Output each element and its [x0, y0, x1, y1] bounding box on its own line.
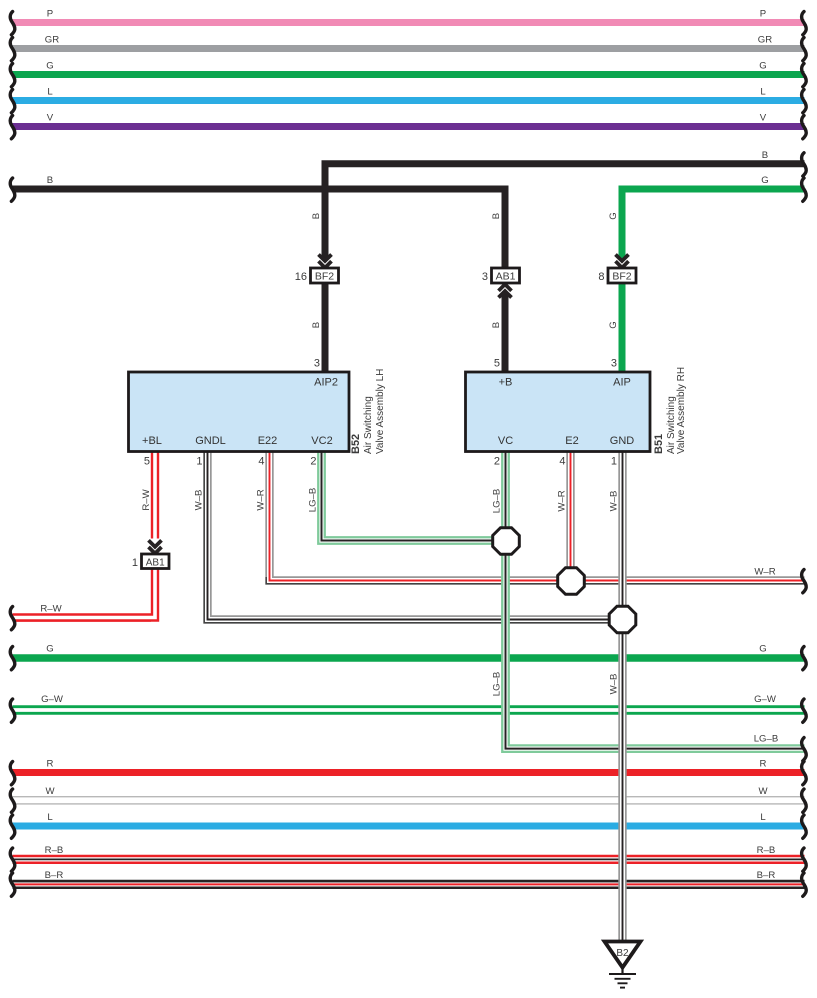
svg-text:3: 3 — [482, 271, 488, 283]
svg-text:B51: B51 — [653, 434, 665, 454]
svg-text:BF2: BF2 — [315, 271, 334, 283]
svg-text:E22: E22 — [258, 435, 278, 447]
ground B2 — [605, 942, 641, 988]
connector BF2 pin 8 — [608, 268, 636, 283]
svg-text:AIP: AIP — [613, 377, 631, 389]
svg-text:AIP2: AIP2 — [314, 377, 338, 389]
svg-text:AB1: AB1 — [496, 271, 516, 283]
svg-text:4: 4 — [559, 456, 565, 468]
svg-text:2: 2 — [494, 456, 500, 468]
wire G-W bus — [13, 705, 805, 715]
connector BF2 pin 16 arrow — [319, 255, 332, 268]
svg-text:R: R — [47, 759, 54, 770]
svg-text:B–R: B–R — [45, 870, 64, 881]
svg-text:G: G — [608, 212, 619, 219]
svg-text:L: L — [760, 812, 766, 823]
connector BF2 pin 16 — [311, 268, 339, 283]
svg-text:B: B — [47, 175, 53, 186]
wire B left (to AB1 3, +B) — [13, 189, 506, 268]
svg-text:5: 5 — [494, 358, 500, 370]
svg-text:VC2: VC2 — [311, 435, 332, 447]
svg-text:W–R: W–R — [256, 489, 267, 510]
svg-text:5: 5 — [144, 456, 150, 468]
svg-text:4: 4 — [258, 456, 264, 468]
svg-text:B: B — [311, 322, 322, 328]
svg-text:G: G — [608, 321, 619, 328]
connector AB1 pin 3 arrow — [499, 284, 512, 297]
svg-text:P: P — [47, 9, 53, 20]
svg-text:1: 1 — [611, 456, 617, 468]
node junction J2 — [558, 568, 585, 595]
svg-text:W–B: W–B — [609, 674, 620, 695]
svg-text:B–R: B–R — [757, 870, 776, 881]
wire R-B bus — [13, 855, 805, 864]
connector AB1 pin 1 — [142, 554, 170, 569]
wire W-R from E2 to junction — [566, 449, 574, 581]
wire G bus top — [13, 71, 805, 78]
wire V bus — [13, 123, 805, 130]
svg-text:AB1: AB1 — [146, 557, 165, 568]
break symbols right edge — [802, 12, 807, 35]
svg-text:GR: GR — [758, 35, 772, 46]
svg-text:L: L — [760, 87, 766, 98]
wire L bus lower — [13, 823, 805, 830]
svg-text:W: W — [45, 786, 55, 797]
svg-text:R–B: R–B — [757, 845, 776, 856]
wire W bus — [13, 796, 805, 804]
svg-text:G: G — [761, 175, 768, 186]
svg-text:Valve Assembly RH: Valve Assembly RH — [676, 367, 687, 454]
svg-text:GNDL: GNDL — [195, 435, 226, 447]
svg-text:16: 16 — [295, 271, 307, 283]
svg-text:Air Switching: Air Switching — [363, 396, 374, 454]
svg-text:LG–B: LG–B — [492, 489, 503, 514]
svg-text:BF2: BF2 — [612, 271, 631, 283]
svg-text:W: W — [758, 786, 768, 797]
svg-text:GR: GR — [45, 35, 59, 46]
svg-text:1: 1 — [196, 456, 202, 468]
svg-text:B: B — [311, 213, 322, 219]
svg-text:P: P — [760, 9, 766, 20]
svg-text:R–B: R–B — [45, 845, 64, 856]
svg-text:W–R: W–R — [557, 490, 568, 511]
svg-text:B52: B52 — [350, 434, 362, 454]
wire W-B from GND to ground B2 — [618, 449, 626, 941]
svg-text:R–W: R–W — [141, 488, 152, 510]
svg-text:B: B — [491, 322, 502, 328]
svg-text:V: V — [760, 113, 767, 124]
op block B51 Air Switching Valve Assembly RH — [466, 372, 651, 452]
node junction J3 — [609, 606, 636, 633]
wire G (to BF2 8, AIP) — [622, 189, 805, 259]
svg-text:G: G — [46, 644, 53, 655]
label B52 — [350, 369, 386, 454]
svg-text:B2: B2 — [616, 948, 629, 959]
svg-text:+BL: +BL — [142, 435, 162, 447]
node junction J1 — [493, 528, 520, 555]
svg-text:3: 3 — [611, 358, 617, 370]
wire L bus top — [13, 97, 805, 104]
svg-text:L: L — [47, 87, 53, 98]
connector AB1 pin 3 — [492, 268, 520, 283]
wire LG-B from VC to right edge — [506, 449, 805, 749]
wire GR bus — [13, 45, 805, 52]
wire P bus — [13, 19, 805, 26]
svg-text:GND: GND — [610, 435, 635, 447]
label B51 — [653, 367, 687, 454]
wire R bus — [13, 769, 805, 776]
connector BF2 pin 8 arrow — [616, 255, 629, 268]
wire R-W from +BL to AB1 and left edge — [151, 449, 159, 539]
svg-text:W–R: W–R — [754, 567, 775, 578]
break symbols left edge — [10, 12, 15, 35]
wire W-B from GNDL to junction — [204, 449, 622, 623]
svg-text:E2: E2 — [565, 435, 578, 447]
svg-text:2: 2 — [310, 456, 316, 468]
svg-text:G–W: G–W — [754, 694, 777, 705]
wire B-R bus — [13, 881, 805, 884]
svg-text:LG–B: LG–B — [492, 672, 503, 697]
svg-text:LG–B: LG–B — [308, 488, 319, 513]
svg-text:G: G — [46, 61, 53, 72]
op block B52 Air Switching Valve Assembly LH — [129, 372, 350, 452]
svg-text:Valve Assembly LH: Valve Assembly LH — [375, 369, 386, 454]
wire B right (to BF2 16, AIP2) — [325, 164, 805, 259]
svg-text:G–W: G–W — [41, 694, 64, 705]
svg-text:V: V — [47, 113, 54, 124]
svg-text:W–B: W–B — [194, 490, 205, 511]
svg-text:3: 3 — [314, 358, 320, 370]
connector AB1 pin 1 arrow — [149, 540, 162, 553]
svg-text:L: L — [47, 812, 53, 823]
svg-text:VC: VC — [498, 435, 513, 447]
svg-text:+B: +B — [499, 377, 513, 389]
svg-text:R–W: R–W — [40, 604, 62, 615]
wire W-R from E22 to right edge — [266, 449, 804, 584]
wire LG-B from VC2 to junction — [322, 449, 507, 541]
svg-text:G: G — [759, 61, 766, 72]
wire G bus lower — [13, 654, 805, 661]
svg-text:8: 8 — [598, 271, 604, 283]
svg-text:B: B — [491, 213, 502, 219]
svg-text:G: G — [759, 644, 766, 655]
svg-text:1: 1 — [132, 557, 138, 569]
svg-text:R: R — [760, 759, 767, 770]
svg-text:W–B: W–B — [609, 491, 620, 512]
svg-text:LG–B: LG–B — [754, 734, 779, 745]
svg-text:B: B — [762, 150, 768, 161]
